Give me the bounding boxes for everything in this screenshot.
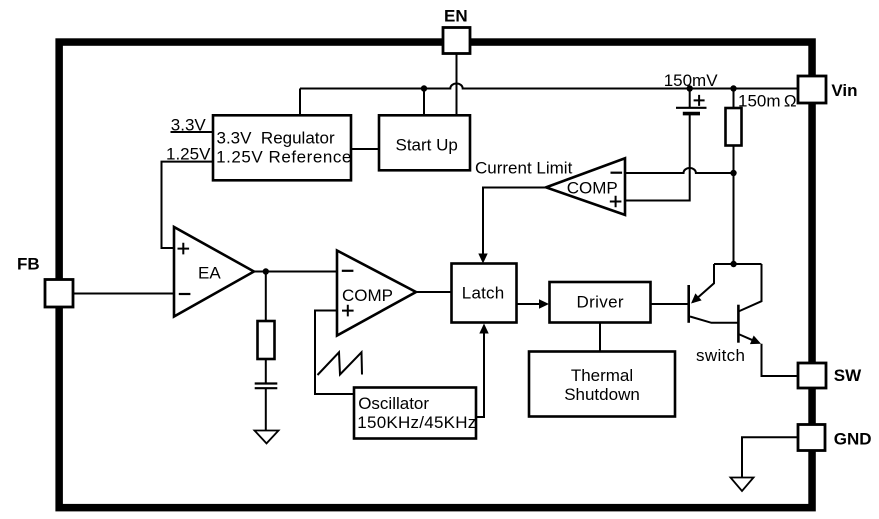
node: junction at sense resistor top on rail xyxy=(730,85,736,91)
block: Driver xyxy=(550,282,651,323)
svg-text:3.3V: 3.3V xyxy=(171,116,207,135)
svg-text:FB: FB xyxy=(17,255,40,274)
wire: riser from junction into Start Up top xyxy=(423,89,425,116)
block: Thermal Shutdown xyxy=(529,352,675,417)
node: junction at EA output xyxy=(263,268,269,274)
op-amp COMP PWM comparator xyxy=(337,251,416,336)
svg-text:Driver: Driver xyxy=(577,292,624,311)
node: junction on sense resistor leg xyxy=(730,170,736,176)
svg-text:150m Ω: 150m Ω xyxy=(738,92,797,111)
battery: 150mV offset source xyxy=(689,89,691,108)
svg-text:GND: GND xyxy=(834,429,872,448)
node: junction on top rail above Start Up xyxy=(421,85,427,91)
wire: PWM COMP + input from oscillator xyxy=(315,311,354,395)
wire: capacitor to ground xyxy=(265,388,267,430)
svg-text:150KHz/45KHz: 150KHz/45KHz xyxy=(357,413,476,432)
pin GND xyxy=(798,425,825,451)
block: 3.3V Regulator / 1.25V Reference xyxy=(213,115,351,180)
wire: Latch output to Driver with arrow xyxy=(517,303,541,305)
wire: EN pin down into Start Up top xyxy=(456,54,458,116)
svg-text:1.25V Reference: 1.25V Reference xyxy=(216,148,352,167)
wire: current limit COMP - input from sense resistor with hop over battery wire xyxy=(625,168,734,173)
sawtooth waveform symbol xyxy=(318,352,363,375)
wire: 1.25V reference to EA + input xyxy=(162,162,214,248)
pin SW xyxy=(798,363,826,388)
wire: current limit COMP output to Latch top with arrow xyxy=(483,188,546,257)
svg-text:EA: EA xyxy=(198,263,221,282)
node: junction at collector rail xyxy=(730,261,736,267)
wire: Driver output to switch base xyxy=(651,303,689,305)
svg-text:Latch: Latch xyxy=(462,284,505,303)
wire: top rail from regulator riser to Vin with hop over EN wire xyxy=(300,83,798,88)
ground: compensation network ground xyxy=(255,431,279,444)
wire: switch emitter to SW pin xyxy=(762,344,799,376)
wire: Oscillator output to Latch bottom with arrow xyxy=(476,331,484,417)
svg-text:COMP: COMP xyxy=(567,179,618,198)
svg-text:Oscillator: Oscillator xyxy=(358,394,429,413)
wire: EA output down to compensation resistor xyxy=(265,272,267,322)
wire: PWM COMP output to Latch xyxy=(416,291,451,293)
wire: regulator top riser xyxy=(299,89,301,116)
wire: regulator right to Start Up left xyxy=(351,148,379,150)
svg-text:3.3V Regulator: 3.3V Regulator xyxy=(217,129,335,148)
resistor: compensation R xyxy=(258,321,275,359)
pin EN xyxy=(443,28,470,54)
block: Start Up xyxy=(379,115,470,170)
pin Vin xyxy=(798,76,826,103)
svg-text:COMP: COMP xyxy=(342,286,393,305)
wire: Driver to Thermal Shutdown xyxy=(599,323,601,352)
wire: 3.3V output stub xyxy=(171,131,214,133)
wire: EA output to PWM COMP - input xyxy=(254,271,337,273)
svg-text:Current Limit: Current Limit xyxy=(475,159,573,178)
wire: FB pin to EA - input xyxy=(73,293,174,295)
svg-text:Shutdown: Shutdown xyxy=(564,385,640,404)
pin FB xyxy=(45,280,73,308)
op-amp COMP current limit comparator (points left) xyxy=(546,158,625,215)
block: Oscillator xyxy=(354,388,476,439)
wire: resistor to capacitor xyxy=(265,359,267,384)
wire: current limit COMP + input from battery xyxy=(625,114,690,201)
resistor: 150mOhm sense resistor xyxy=(733,89,735,109)
svg-text:EN: EN xyxy=(444,6,468,25)
svg-text:Vin: Vin xyxy=(831,81,857,100)
wire: GND pin to ground symbol xyxy=(742,437,798,477)
node: junction at battery top on rail xyxy=(687,85,693,91)
svg-text:1.25V: 1.25V xyxy=(166,145,211,164)
capacitor: compensation C xyxy=(255,384,278,389)
block: Latch xyxy=(452,264,517,323)
IC boundary border xyxy=(59,42,812,508)
svg-text:SW: SW xyxy=(834,366,862,385)
ground: GND pin ground symbol xyxy=(731,478,754,492)
op-amp EA error amplifier xyxy=(174,227,254,317)
svg-text:Start Up: Start Up xyxy=(396,136,458,155)
svg-text:switch: switch xyxy=(696,346,745,365)
svg-text:Thermal: Thermal xyxy=(571,366,633,385)
